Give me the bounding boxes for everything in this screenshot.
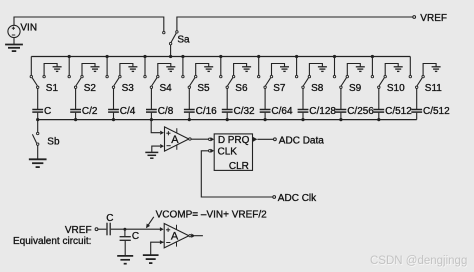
svg-text:C: C bbox=[132, 231, 139, 242]
svg-text:S9: S9 bbox=[349, 83, 362, 94]
svg-text:ADC Data: ADC Data bbox=[279, 136, 324, 147]
svg-text:S5: S5 bbox=[197, 83, 210, 94]
svg-text:ADC Clk: ADC Clk bbox=[278, 193, 317, 204]
svg-text:C: C bbox=[44, 106, 51, 117]
svg-text:CLK: CLK bbox=[218, 147, 238, 158]
svg-text:C/512: C/512 bbox=[385, 106, 412, 117]
svg-text:C/512: C/512 bbox=[423, 106, 450, 117]
svg-text:C/32: C/32 bbox=[234, 106, 256, 117]
svg-text:C/64: C/64 bbox=[271, 106, 293, 117]
svg-text:C/128: C/128 bbox=[309, 106, 336, 117]
svg-text:A: A bbox=[171, 231, 179, 243]
svg-text:S11: S11 bbox=[425, 83, 442, 94]
svg-text:Equivalent circuit:: Equivalent circuit: bbox=[13, 236, 91, 247]
svg-text:C: C bbox=[106, 213, 113, 224]
svg-text:C/16: C/16 bbox=[196, 106, 218, 117]
svg-text:C/4: C/4 bbox=[120, 106, 136, 117]
svg-text:VCOMP= –VIN+ VREF/2: VCOMP= –VIN+ VREF/2 bbox=[156, 209, 268, 220]
svg-text:VIN: VIN bbox=[20, 22, 37, 33]
svg-text:A: A bbox=[171, 134, 179, 146]
svg-text:S8: S8 bbox=[311, 83, 324, 94]
svg-text:S10: S10 bbox=[387, 83, 405, 94]
svg-text:CSDN @dengjingg: CSDN @dengjingg bbox=[370, 255, 467, 267]
svg-text:S7: S7 bbox=[273, 83, 286, 94]
svg-text:VREF: VREF bbox=[65, 225, 92, 236]
svg-text:C/2: C/2 bbox=[82, 106, 98, 117]
svg-text:S3: S3 bbox=[122, 83, 135, 94]
svg-text:CLR: CLR bbox=[229, 161, 249, 172]
svg-text:S2: S2 bbox=[84, 83, 97, 94]
svg-text:C/256: C/256 bbox=[347, 106, 374, 117]
svg-text:Sa: Sa bbox=[177, 34, 190, 45]
svg-text:S6: S6 bbox=[235, 83, 248, 94]
svg-text:S1: S1 bbox=[46, 83, 59, 94]
svg-text:PRQ: PRQ bbox=[228, 135, 250, 146]
svg-text:C/8: C/8 bbox=[158, 106, 174, 117]
svg-text:Sb: Sb bbox=[47, 136, 60, 147]
svg-text:S4: S4 bbox=[160, 83, 173, 94]
svg-text:D: D bbox=[218, 135, 225, 146]
svg-text:VREF: VREF bbox=[420, 13, 447, 24]
